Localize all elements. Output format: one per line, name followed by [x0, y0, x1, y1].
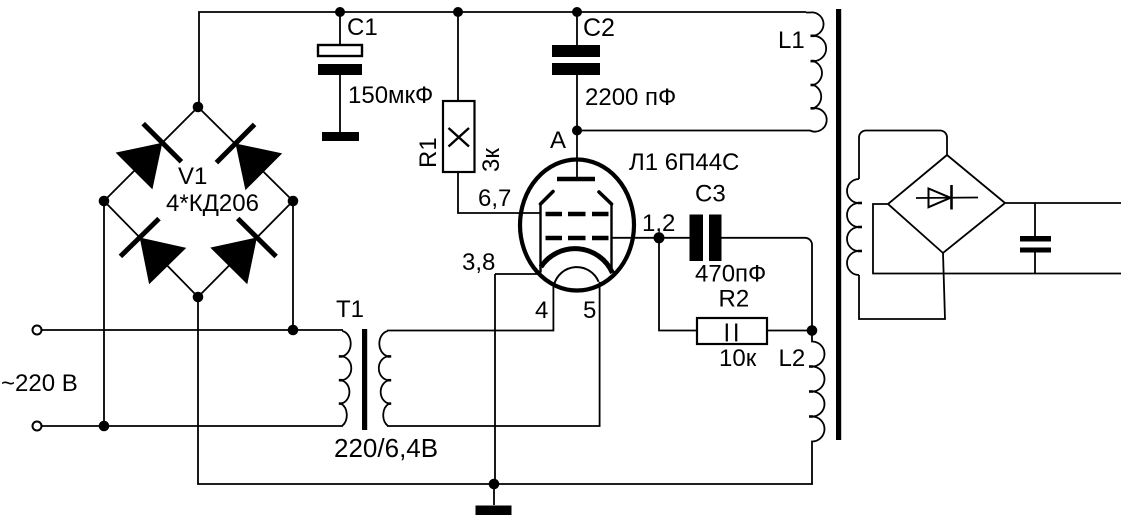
svg-text:4: 4: [535, 297, 548, 324]
svg-text:2200 пФ: 2200 пФ: [585, 84, 676, 111]
svg-text:150мкФ: 150мкФ: [348, 82, 433, 109]
svg-text:L2: L2: [779, 345, 806, 372]
svg-text:3,8: 3,8: [462, 249, 495, 276]
svg-text:R1: R1: [415, 137, 442, 168]
svg-text:470пФ: 470пФ: [695, 261, 766, 288]
svg-text:V1: V1: [178, 163, 207, 190]
svg-text:A: A: [550, 127, 566, 154]
svg-text:1,2: 1,2: [642, 210, 675, 237]
svg-text:5: 5: [583, 297, 596, 324]
svg-text:C2: C2: [583, 14, 615, 42]
svg-text:C1: C1: [347, 14, 378, 41]
svg-text:C3: C3: [695, 181, 726, 208]
svg-text:~220 В: ~220 В: [1, 370, 78, 397]
svg-text:R2: R2: [719, 286, 750, 313]
svg-text:10к: 10к: [719, 345, 757, 372]
svg-text:6,7: 6,7: [478, 185, 511, 212]
svg-text:3к: 3к: [478, 148, 505, 172]
svg-text:T1: T1: [336, 296, 364, 323]
svg-text:4*КД206: 4*КД206: [166, 190, 259, 217]
svg-text:Л1 6П44С: Л1 6П44С: [629, 149, 739, 176]
svg-text:220/6,4В: 220/6,4В: [334, 433, 438, 463]
svg-text:L1: L1: [778, 27, 805, 54]
